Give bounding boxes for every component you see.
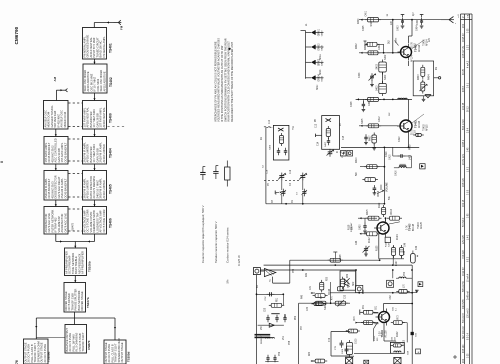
legend tubular ceramic capacitor [213, 166, 218, 264]
svg-text:C33: C33 [345, 294, 347, 299]
svg-text:2x48 mA: 2x48 mA [466, 291, 469, 300]
svg-text:0.125 W: 0.125 W [237, 255, 241, 266]
svg-text:SK1b: SK1b [320, 69, 322, 75]
svg-text:C75: C75 [335, 345, 337, 350]
tuning gang C1a C1b [264, 173, 307, 181]
block B3L [43, 101, 68, 130]
svg-text:C60: C60 [416, 332, 418, 337]
junction into AF preamp [56, 222, 95, 248]
trimmer C405 [369, 73, 377, 87]
svg-text:R51: R51 [277, 297, 279, 302]
table header mV [455, 14, 460, 24]
svg-text:R30: R30 [327, 276, 329, 281]
svg-text:FERRIET: FERRIET [261, 334, 263, 344]
svg-text:C412: C412 [379, 116, 381, 122]
svg-text:4 mA 2: 4 mA 2 [466, 60, 469, 68]
svg-text:2p7: 2p7 [413, 11, 415, 16]
svg-text:R125: R125 [377, 245, 379, 251]
svg-text:5k6: 5k6 [356, 172, 358, 176]
svg-text:C401: C401 [366, 10, 368, 16]
block TS406 [82, 207, 112, 235]
RF section S406 [263, 125, 289, 203]
svg-text:1n: 1n [387, 13, 389, 16]
block CM470 output centre [65, 325, 91, 354]
svg-text:8V4 1 0V3: 8V4 1 0V3 [463, 119, 465, 130]
svg-text:8.5 0.4: 8.5 0.4 [467, 332, 469, 340]
svg-text:OC45 BANDFILT: OC45 BANDFILT [63, 142, 67, 162]
block TS402 [83, 64, 113, 93]
block B6L [44, 207, 68, 235]
svg-text:C403: C403 [398, 25, 400, 31]
svg-text:5V 0V6 3: 5V 0V6 3 [463, 217, 465, 227]
svg-text:TS401: TS401 [424, 39, 426, 46]
svg-text:R403: R403 [418, 74, 420, 80]
legend pin-up capacitor [200, 167, 205, 264]
svg-text:R131: R131 [374, 335, 376, 341]
data table column mA [466, 28, 469, 358]
svg-text:C30: C30 [307, 306, 309, 311]
block TS107b driver [64, 283, 90, 313]
svg-text:T1: T1 [270, 279, 272, 282]
mixer input network S404 C409 [356, 97, 412, 111]
svg-text:C406: C406 [359, 72, 361, 78]
tuning gang coupling (dashed) [68, 103, 272, 231]
IF trap network C75 [331, 332, 350, 357]
svg-text:TS1: TS1 [293, 125, 295, 130]
svg-text:S110: S110 [404, 339, 406, 345]
svg-text:mV: mV [458, 14, 460, 18]
svg-text:B1: B1 [257, 284, 259, 288]
svg-text:S407: S407 [325, 141, 327, 147]
svg-text:S109: S109 [356, 338, 358, 344]
svg-text:10 mA 4: 10 mA 4 [466, 273, 469, 282]
svg-text:OA79 AGC LINE: OA79 AGC LINE [63, 213, 67, 233]
transistor TS401 AF114 [387, 20, 424, 66]
legend tolerance [226, 255, 241, 284]
svg-text:TS400: TS400 [109, 113, 113, 123]
svg-text:R52: R52 [295, 315, 297, 320]
svg-text:C420: C420 [360, 224, 362, 230]
svg-text:R127: R127 [396, 260, 398, 266]
svg-text:C409: C409 [369, 100, 371, 106]
svg-text:123: 123 [429, 37, 431, 42]
svg-text:120 mA 2: 120 mA 2 [466, 308, 469, 318]
test point 4 [416, 349, 421, 354]
page number 76 [15, 360, 19, 364]
svg-text:R60: R60 [309, 351, 311, 356]
svg-text:R71: R71 [363, 304, 365, 309]
svg-text:AF114: AF114 [425, 39, 428, 46]
data table column V [463, 23, 465, 363]
svg-text:R7: R7 [340, 122, 342, 126]
AGC bus and test sockets [341, 147, 420, 157]
svg-text:C403: C403 [396, 37, 398, 43]
resistor R61 [311, 359, 328, 363]
output rail [411, 265, 418, 364]
AF amplifier TS403 [351, 216, 415, 237]
svg-text:S1: S1 [321, 295, 323, 299]
aerial input fork [441, 17, 454, 23]
svg-text:OC75 TONE CORR: OC75 TONE CORR [102, 209, 106, 232]
svg-text:TS401: TS401 [109, 43, 113, 53]
svg-text:AF115: AF115 [425, 124, 428, 131]
svg-text:TS106b: TS106b [87, 261, 91, 272]
block B4L [44, 137, 68, 165]
svg-text:1.4 6: 1.4 6 [467, 234, 469, 240]
svg-text:1V2 45: 1V2 45 [463, 102, 465, 110]
svg-text:BC148: BC148 [413, 223, 415, 231]
svg-text:R416: R416 [391, 208, 393, 214]
svg-text:TS405: TS405 [109, 184, 113, 194]
block TS106b AF preamp [64, 248, 91, 276]
svg-text:C7: C7 [297, 191, 299, 195]
svg-text:IN AM POSITION WITH COLD CHASS: IN AM POSITION WITH COLD CHASSIS AND NOM… [227, 41, 231, 122]
feedthrough capacitor at x421 [420, 15, 424, 29]
svg-text:0.2V: 0.2V [380, 331, 382, 336]
svg-text:R414: R414 [378, 190, 380, 196]
AM aerial [53, 76, 68, 100]
svg-text:20.7K: 20.7K [412, 42, 414, 48]
svg-text:C46: C46 [405, 242, 407, 247]
svg-text:AF116 NEUTRAL: AF116 NEUTRAL [102, 107, 106, 128]
svg-text:L405: L405 [410, 154, 412, 160]
svg-text:S403: S403 [385, 74, 387, 80]
svg-text:GR402: GR402 [318, 43, 320, 51]
svg-text:R70: R70 [354, 316, 356, 321]
svg-text:CM470: CM470 [87, 340, 91, 350]
svg-text:R407: R407 [370, 135, 372, 141]
svg-text:IF THE POSITIONS AS INDICATED: IF THE POSITIONS AS INDICATED WITH AN OU… [220, 45, 224, 122]
svg-text:INTERCHANGE OF FM AND AM COILS: INTERCHANGE OF FM AND AM COILS IS NOT PE… [213, 41, 217, 122]
svg-text:C59: C59 [279, 351, 281, 356]
svg-text:0.1: 0.1 [395, 307, 397, 311]
component reference labels [257, 11, 438, 356]
waveband switch SK1 [340, 271, 363, 293]
svg-text:R401: R401 [365, 44, 367, 50]
band switch diodes GR401-GR404 [301, 28, 324, 81]
svg-text:OC45 BANDFILT: OC45 BANDFILT [63, 178, 67, 198]
svg-text:Tubular ceramic capacitor 500: Tubular ceramic capacitor 500 V [214, 221, 218, 263]
AF bus wire [266, 203, 385, 205]
svg-text:AF115 ADDITIVE: AF115 ADDITIVE [102, 71, 106, 91]
svg-text:C53: C53 [293, 268, 295, 273]
svg-text:C12: C12 [316, 123, 318, 128]
svg-text:AF116 LIMITER: AF116 LIMITER [102, 144, 106, 163]
pickup jack BU1 [253, 268, 276, 277]
svg-text:R128: R128 [340, 254, 342, 260]
svg-text:C8: C8 [272, 199, 274, 203]
block TS108d output left [23, 339, 50, 364]
svg-text:R415: R415 [367, 209, 369, 215]
block B5L [44, 171, 68, 201]
FM aerial [94, 20, 123, 30]
svg-text:FM: FM [120, 25, 124, 30]
edge registration mark [1, 161, 4, 163]
svg-text:C66: C66 [392, 336, 394, 341]
svg-text:0V12 6V: 0V12 6V [463, 267, 465, 276]
svg-text:0.45: 0.45 [467, 147, 469, 152]
svg-text:R5: R5 [315, 118, 317, 122]
svg-text:R122: R122 [369, 237, 371, 243]
svg-text:TRANSF S110 T: TRANSF S110 T [81, 332, 85, 352]
svg-text:C10: C10 [269, 119, 271, 124]
feedthrough capacitor at x402 [401, 15, 405, 29]
notes paragraph [213, 38, 234, 122]
svg-text:12V 0V8: 12V 0V8 [463, 235, 465, 244]
svg-text:AC128: AC128 [384, 330, 387, 338]
svg-text:2k2: 2k2 [389, 40, 391, 44]
transistor TS402 AF115 [359, 99, 424, 147]
svg-text:L50: L50 [261, 325, 263, 330]
output transformer S109 left [342, 340, 354, 364]
driver coupling network [330, 270, 423, 294]
svg-text:20.7K: 20.7K [412, 129, 414, 135]
svg-text:GR401: GR401 [318, 28, 320, 36]
svg-text:R409: R409 [410, 144, 412, 150]
svg-text:0.85: 0.85 [467, 213, 469, 218]
svg-text:AF114: AF114 [418, 44, 421, 52]
svg-text:C48: C48 [404, 250, 406, 255]
svg-text:OA90: OA90 [320, 30, 323, 36]
arrow preamp to driver [74, 276, 76, 283]
supply rails [260, 252, 413, 287]
svg-text:Ceramic capacitor &quot;Pin-up: Ceramic capacitor &quot;Pin-up&quot; 500… [201, 205, 205, 263]
svg-text:4V5 8: 4V5 8 [463, 85, 465, 92]
svg-text:FM AERIAL AMPL: FM AERIAL AMPL [102, 36, 106, 58]
svg-text:S1b: S1b [325, 305, 327, 310]
svg-text:AM: AM [53, 76, 57, 81]
svg-text:565 mV 50: 565 mV 50 [463, 280, 465, 292]
svg-text:0.35: 0.35 [467, 28, 469, 33]
svg-text:R132: R132 [397, 331, 399, 337]
svg-text:C49: C49 [416, 245, 418, 250]
svg-text:R40: R40 [302, 294, 304, 299]
svg-text:TS406: TS406 [109, 218, 113, 228]
svg-text:AC125: AC125 [420, 221, 423, 229]
svg-text:SK2: SK2 [353, 281, 355, 286]
table footnote mark [453, 355, 457, 359]
block TS400 [82, 101, 112, 130]
capacitor C52 [257, 292, 285, 305]
bias network R407 C411 [364, 133, 376, 151]
svg-text:L51: L51 [283, 335, 285, 340]
svg-text:TS402: TS402 [424, 124, 426, 131]
svg-text:TS105d: TS105d [127, 351, 131, 362]
legend carbon resistor [225, 161, 230, 264]
svg-text:S403: S403 [377, 85, 379, 91]
svg-text:0V65 2: 0V65 2 [463, 139, 465, 147]
oscillator section S407 [316, 116, 346, 158]
svg-text:R410: R410 [356, 157, 358, 163]
ferrite rod aerial [255, 334, 279, 362]
svg-text:2.8 4: 2.8 4 [467, 127, 469, 133]
IF transformers S402 S403 [377, 60, 387, 97]
svg-text:4V8 120: 4V8 120 [463, 344, 465, 353]
output transistor TS404 AC128 [346, 304, 413, 343]
svg-text:220: 220 [377, 337, 379, 341]
trimmers C6 C7 [275, 179, 307, 204]
svg-text:C1b: C1b [290, 169, 292, 174]
svg-text:C405: C405 [363, 25, 365, 31]
svg-text:R404: R404 [429, 74, 431, 80]
svg-text:5%: 5% [226, 279, 230, 283]
svg-text:C44: C44 [356, 240, 358, 245]
svg-text:C2: C2 [263, 164, 265, 168]
svg-text:SET 300 mV: SET 300 mV [463, 326, 465, 339]
svg-text:7V4 2V2: 7V4 2V2 [463, 250, 465, 259]
svg-text:500 mV 8: 500 mV 8 [463, 313, 465, 323]
svg-text:C61: C61 [376, 305, 378, 310]
svg-text:3V8 0V9: 3V8 0V9 [463, 178, 465, 187]
svg-text:MIXER OC44: MIXER OC44 [63, 111, 67, 127]
svg-text:4: 4 [416, 351, 420, 353]
svg-text:TS404: TS404 [109, 148, 113, 158]
svg-text:C31: C31 [310, 285, 312, 290]
AM converter OC44 [311, 277, 350, 306]
svg-text:1V8 0V7 3V: 1V8 0V7 3V [463, 45, 465, 58]
svg-text:2V 6V 1V1: 2V 6V 1V1 [463, 153, 465, 165]
svg-text:56 12: 56 12 [467, 106, 469, 112]
svg-text:6V 25: 6V 25 [463, 68, 465, 75]
svg-text:C416: C416 [396, 170, 398, 176]
svg-text:C1a: C1a [267, 169, 269, 174]
svg-text:C1.2: C1.2 [414, 42, 416, 48]
svg-text:R402: R402 [356, 43, 358, 49]
svg-text:S402: S402 [377, 63, 379, 69]
block TS401 [82, 28, 112, 60]
svg-text:C68: C68 [408, 350, 410, 355]
block TS404 [82, 137, 112, 165]
svg-text:TS402: TS402 [414, 120, 418, 128]
RF amplifier bias network R401 C402 [359, 37, 399, 55]
svg-text:R1: R1 [261, 136, 263, 140]
svg-text:SK1c: SK1c [317, 84, 319, 90]
component value labels [261, 10, 419, 345]
svg-text:C408: C408 [351, 101, 353, 107]
svg-text:SK1a: SK1a [320, 54, 322, 60]
svg-text:0.7K: 0.7K [407, 225, 409, 230]
svg-text:TS107b: TS107b [86, 297, 90, 308]
svg-text:TS108d: TS108d [47, 351, 51, 362]
svg-text:1.6 2: 1.6 2 [467, 166, 469, 172]
svg-text:AF116 LIMITER: AF116 LIMITER [102, 180, 106, 199]
svg-text:76: 76 [15, 360, 19, 364]
TS403 emitter network R126 C47 [363, 234, 419, 265]
svg-text:Carbon resistor E24 series: Carbon resistor E24 series [226, 227, 230, 263]
neutralising network R403 R404 [413, 61, 441, 102]
svg-text:0V15 3V: 0V15 3V [463, 33, 465, 42]
svg-text:R124: R124 [397, 234, 399, 240]
svg-text:C1.8: C1.8 [414, 129, 416, 135]
split driver to output stages [35, 312, 116, 340]
svg-text:S405: S405 [362, 118, 364, 124]
svg-text:L70: L70 [404, 283, 406, 288]
svg-text:BU2: BU2 [363, 289, 365, 294]
svg-text:C55: C55 [265, 307, 267, 312]
svg-text:1.2 5: 1.2 5 [467, 44, 469, 50]
svg-text:0.25: 0.25 [467, 353, 469, 358]
svg-text:C4: C4 [290, 182, 292, 186]
svg-text:C50: C50 [404, 271, 406, 276]
svg-text:TS403: TS403 [409, 223, 412, 231]
svg-text:R73: R73 [398, 315, 400, 320]
svg-text:C9: C9 [292, 199, 294, 203]
output transformer S110 right [354, 342, 410, 364]
svg-text:340 0V55: 340 0V55 [463, 299, 465, 309]
svg-text:22K: 22K [351, 225, 353, 230]
page code CM6790 [14, 26, 19, 44]
signal flow arrows AM chain [55, 129, 57, 207]
svg-text:3 0.8: 3 0.8 [467, 189, 469, 195]
svg-text:C57: C57 [301, 325, 303, 330]
svg-text:osc: osc [389, 112, 391, 116]
resistor R120 [382, 203, 386, 217]
signal flow arrows FM chain [93, 59, 95, 207]
svg-text:470: 470 [332, 295, 334, 300]
svg-text:M1: M1 [436, 66, 438, 70]
data table frame [461, 14, 473, 364]
volume control network [360, 147, 425, 203]
wire jack ground [256, 260, 290, 364]
svg-text:C414: C414 [386, 151, 388, 157]
svg-text:R119: R119 [379, 202, 381, 208]
svg-text:C404: C404 [417, 19, 419, 25]
svg-text:C15: C15 [343, 135, 345, 140]
svg-text:TS403: TS403 [418, 222, 420, 229]
svg-text:C62: C62 [390, 295, 392, 300]
TS404 emitter wiring [374, 313, 396, 342]
svg-text:C3: C3 [342, 154, 344, 158]
block TS105d output right [104, 338, 131, 364]
svg-text:R400: R400 [358, 18, 360, 24]
svg-text:e: e [455, 22, 457, 24]
svg-text:C58: C58 [289, 340, 291, 345]
svg-text:C415: C415 [390, 154, 392, 160]
svg-text:CM6790: CM6790 [14, 26, 19, 44]
svg-text:S406: S406 [270, 144, 272, 150]
svg-text:C56: C56 [285, 313, 287, 318]
svg-text:DRIVER STAGE: DRIVER STAGE [80, 291, 84, 310]
svg-text:L1: L1 [306, 23, 308, 26]
svg-text:R118: R118 [349, 224, 351, 230]
svg-text:R41: R41 [306, 272, 308, 277]
svg-text:C14: C14 [318, 141, 320, 146]
svg-text:S402: S402 [385, 54, 387, 60]
svg-text:mA: mA [466, 14, 469, 18]
svg-text:C65: C65 [393, 306, 395, 311]
svg-text:C413: C413 [399, 136, 401, 142]
svg-text:0.6 1: 0.6 1 [467, 82, 469, 88]
svg-text:AF PREAMPLIFIER: AF PREAMPLIFIER [81, 251, 85, 274]
svg-text:C402: C402 [379, 44, 381, 50]
svg-text:S109: S109 [342, 348, 344, 354]
svg-text:VOLUME: VOLUME [387, 182, 389, 192]
block TS405 [82, 171, 112, 201]
svg-text:C5: C5 [268, 182, 270, 186]
svg-text:C67: C67 [394, 336, 396, 341]
AM oscillator rail [299, 300, 350, 364]
svg-text:50k: 50k [389, 195, 391, 200]
svg-text:S401: S401 [370, 20, 373, 26]
svg-text:OM470: OM470 [72, 222, 75, 231]
svg-text:C6: C6 [276, 191, 278, 195]
svg-text:6.5 2: 6.5 2 [467, 256, 469, 262]
svg-text:TS402: TS402 [109, 77, 113, 87]
svg-text:0V2 15: 0V2 15 [463, 199, 465, 207]
svg-text:2N414: 2N414 [348, 281, 350, 288]
svg-text:C52: C52 [265, 296, 267, 301]
wire junction to mixer [392, 20, 394, 53]
